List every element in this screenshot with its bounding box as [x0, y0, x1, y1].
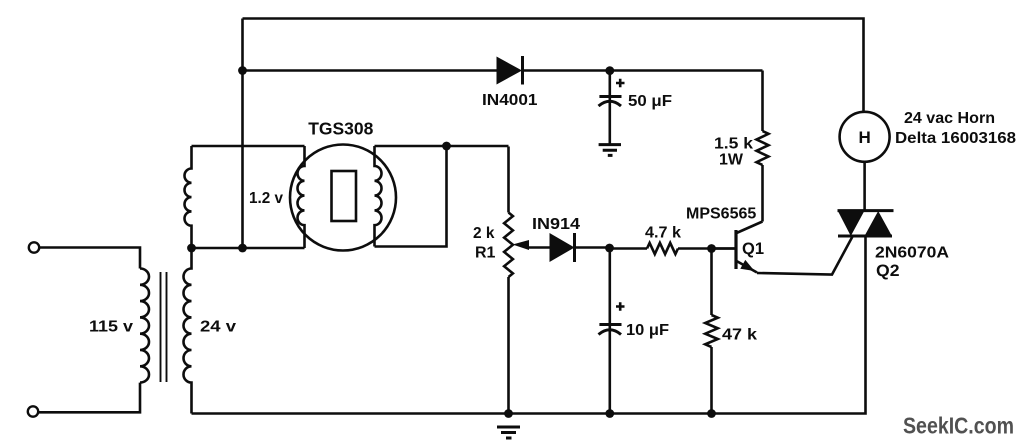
sensor TGS308 circle: [290, 145, 396, 251]
label IN914: [532, 216, 580, 233]
node junction 10uF top: [605, 244, 614, 253]
svg-text:10 μF: 10 μF: [626, 322, 669, 339]
resistor 4.7k: [610, 243, 735, 254]
label Q2: [876, 262, 900, 280]
diode IN4001: [497, 56, 523, 85]
wire triac down to bottom bus: [192, 236, 866, 414]
diode IN914: [528, 233, 610, 262]
svg-text:1.5 k: 1.5 k: [714, 136, 753, 153]
transformer secondary 24v winding: [184, 248, 192, 414]
label Q1: [742, 240, 764, 258]
svg-text:Q1: Q1: [742, 240, 764, 258]
transformer core: [161, 272, 167, 382]
wire horn to triac: [863, 162, 866, 211]
svg-text:47 k: 47 k: [722, 327, 757, 344]
label plus 10uF: [616, 302, 625, 311]
svg-text:1W: 1W: [719, 152, 744, 169]
wire left vertical bus: [241, 19, 244, 249]
wire sensor top left: [192, 145, 305, 148]
ground below R1: [497, 427, 520, 438]
svg-text:IN4001: IN4001: [482, 92, 538, 109]
wire sensor top right: [375, 145, 509, 148]
winding 1.2v: [184, 146, 191, 248]
svg-text:4.7 k: 4.7 k: [645, 225, 681, 242]
label 1.5k: [714, 136, 753, 153]
label MPS6565: [686, 206, 756, 223]
horn H circle: [840, 112, 890, 162]
sensor electrode coil: [375, 146, 382, 247]
node junction at 50uF cap: [605, 66, 614, 75]
watermark SeekIC.com: [903, 413, 1014, 439]
label plus 50uF: [616, 79, 625, 88]
svg-text:50 μF: 50 μF: [628, 93, 672, 110]
capacitor C 10uF: [599, 248, 622, 414]
transformer primary 115v winding: [140, 269, 149, 383]
capacitor C 50uF plates: [599, 97, 622, 107]
label 47k: [722, 327, 757, 344]
svg-text:24 v: 24 v: [200, 319, 236, 336]
node junction left bus bottom: [238, 244, 247, 253]
label 24 vac Horn: [904, 110, 995, 127]
terminal upper left: [29, 242, 39, 252]
label 2k: [473, 225, 495, 242]
svg-text:24 vac Horn: 24 vac Horn: [904, 110, 995, 127]
svg-text:Delta 16003168: Delta 16003168: [895, 130, 1016, 147]
label 2N6070A: [875, 245, 949, 262]
node junction base/47k: [707, 244, 716, 253]
sensor element rectangle: [332, 171, 357, 221]
wire rectifier line left segment: [243, 69, 498, 72]
sensor heater coil: [298, 146, 305, 248]
triac 2N6070A Q2: [838, 211, 894, 236]
wire 50uF cap lead: [608, 71, 611, 145]
label 115v: [89, 319, 133, 336]
svg-text:2N6070A: 2N6070A: [875, 245, 949, 262]
node junction 47k bottom: [707, 409, 716, 418]
svg-text:TGS308: TGS308: [308, 119, 373, 139]
label 4.7k: [645, 225, 681, 242]
node junction at left bus and rectifier wire: [238, 66, 247, 75]
node junction 10uF bottom: [605, 409, 614, 418]
svg-text:R1: R1: [475, 245, 496, 262]
wire sensor bottom left: [192, 247, 305, 250]
svg-text:115 v: 115 v: [89, 319, 133, 336]
svg-text:1.2 v: 1.2 v: [249, 190, 283, 207]
wiper arrow of R1: [513, 240, 530, 250]
wire gate diagonal: [757, 237, 853, 275]
node junction sensor top right: [442, 142, 451, 151]
svg-text:H: H: [858, 128, 870, 147]
label IN4001: [482, 92, 538, 109]
resistor 1.5k: [757, 71, 769, 222]
wire rectifier line right segment: [523, 69, 763, 72]
label 1.2v: [249, 190, 283, 207]
svg-text:SeekIC.com: SeekIC.com: [903, 413, 1014, 439]
wire primary top: [40, 248, 141, 269]
label 10uF: [626, 322, 669, 339]
svg-text:Q2: Q2: [876, 262, 900, 280]
wire sensor right box: [375, 146, 447, 247]
label Delta 16003168: [895, 130, 1016, 147]
transistor Q1 MPS6565: [712, 222, 763, 273]
terminal lower left: [28, 406, 38, 416]
svg-text:MPS6565: MPS6565: [686, 206, 756, 223]
svg-text:IN914: IN914: [532, 216, 580, 233]
label R1: [475, 245, 496, 262]
label 1W: [719, 152, 744, 169]
node junction secondary top: [187, 244, 196, 253]
node junction R1 bottom: [504, 409, 513, 418]
potentiometer R1 2k: [504, 147, 513, 414]
resistor 47k: [705, 249, 718, 414]
ground below 50uF: [599, 145, 621, 156]
label 24v: [200, 319, 236, 336]
wire primary bottom: [39, 383, 141, 413]
svg-text:2 k: 2 k: [473, 225, 495, 242]
label 50uF: [628, 93, 672, 110]
label TGS308: [308, 119, 373, 139]
wire top bus: [243, 19, 864, 112]
